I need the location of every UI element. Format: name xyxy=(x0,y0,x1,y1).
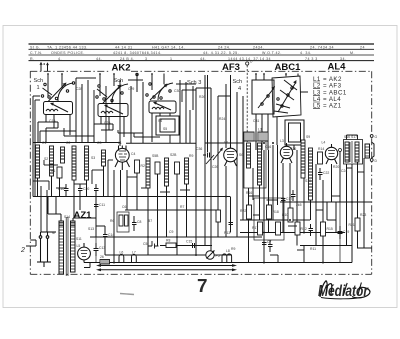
resistor R15 xyxy=(321,222,333,236)
coupling box S6B xyxy=(244,132,254,141)
svg-text:C8: C8 xyxy=(137,220,141,224)
svg-text:C3: C3 xyxy=(97,141,101,145)
loudspeaker xyxy=(365,142,374,158)
capacitor C18 xyxy=(291,190,296,201)
svg-text:2434.: 2434. xyxy=(253,45,264,49)
svg-text:3: 3 xyxy=(145,57,147,61)
potentiometer P5 xyxy=(206,250,220,259)
svg-text:S9: S9 xyxy=(306,135,310,139)
wire bottom-left feeds xyxy=(30,197,105,268)
resistor R3 xyxy=(155,162,160,174)
svg-text:24 24.: 24 24. xyxy=(218,45,231,49)
IF transformer S6/S7 xyxy=(244,137,266,189)
svg-text:R13: R13 xyxy=(224,231,230,235)
svg-text:P5: P5 xyxy=(216,254,220,258)
svg-text:26: 26 xyxy=(100,255,104,259)
svg-text:C22: C22 xyxy=(323,171,329,175)
svg-text:C1: C1 xyxy=(42,141,46,145)
svg-text:C2A: C2A xyxy=(104,121,111,125)
svg-text:AL4: AL4 xyxy=(328,62,347,73)
coil S5B xyxy=(146,158,150,188)
svg-text:R16: R16 xyxy=(246,191,252,195)
capacitor C23 xyxy=(268,240,273,252)
resistor R2 xyxy=(135,160,145,173)
coupling box L3 filter xyxy=(258,128,268,142)
svg-text:C13: C13 xyxy=(99,246,105,250)
svg-text:S16 S17: S16 S17 xyxy=(344,135,357,139)
wire rail h-line xyxy=(125,209,218,211)
resistor R10 xyxy=(282,208,293,222)
wire verticals mid zone xyxy=(33,143,231,263)
svg-text:S2: S2 xyxy=(44,157,48,161)
svg-text:C5: C5 xyxy=(143,242,147,246)
svg-text:C9: C9 xyxy=(169,230,173,234)
svg-text:R14: R14 xyxy=(318,147,324,151)
svg-text:Sch: Sch xyxy=(233,79,243,85)
heater supply line 2 with arrows xyxy=(96,268,237,271)
wire rail k-line xyxy=(90,236,262,238)
svg-text:R8: R8 xyxy=(166,239,170,243)
capacitor C25 xyxy=(309,224,314,236)
svg-text:R2: R2 xyxy=(141,164,145,168)
svg-text:AZ1: AZ1 xyxy=(74,210,93,221)
wire rail p-line xyxy=(105,254,232,256)
svg-text:L7: L7 xyxy=(132,251,136,255)
capacitor C15 xyxy=(186,240,198,249)
resistor R19 xyxy=(276,222,281,235)
tube L1 octode AK2 xyxy=(115,141,130,170)
svg-text:24 B 4.: 24 B 4. xyxy=(120,57,135,61)
svg-text:34.: 34. xyxy=(340,57,346,61)
svg-text:R6: R6 xyxy=(110,219,114,223)
label Sch 1 xyxy=(34,78,44,91)
capacitor C19 xyxy=(338,202,350,263)
svg-text:L4: L4 xyxy=(322,141,326,145)
svg-text:R.: R. xyxy=(30,57,35,61)
svg-text:L3: L3 xyxy=(258,128,262,132)
svg-text:S11: S11 xyxy=(76,237,82,241)
tube L5 rectifier AZ1 xyxy=(77,243,91,263)
wire rail s-line xyxy=(160,246,372,249)
misc part labels xyxy=(42,141,366,235)
capacitor C27 xyxy=(229,218,234,229)
capacitor C20 xyxy=(78,184,89,195)
tube legend list xyxy=(313,76,347,110)
resistor R14 xyxy=(318,147,325,164)
svg-text:4. 34.: 4. 34. xyxy=(300,51,312,55)
band switch cluster Sch3 xyxy=(146,73,179,142)
tube L4 output pentode AL4 xyxy=(322,141,342,165)
wire left double run xyxy=(35,100,40,197)
coil S4 xyxy=(72,146,76,180)
antenna terminal D xyxy=(246,60,253,143)
wire stair jogs between clusters xyxy=(40,86,196,143)
coil S2 xyxy=(44,146,54,176)
capacitor C14 electrolytic xyxy=(103,230,114,241)
svg-text:C26: C26 xyxy=(212,165,218,169)
label Sch 4 xyxy=(233,79,243,92)
resistor box R5 group xyxy=(110,212,129,232)
svg-text:B7: B7 xyxy=(148,219,152,223)
svg-text:44. 4.31.22. 5.25.: 44. 4.31.22. 5.25. xyxy=(203,51,239,55)
label Sch 2 xyxy=(114,78,124,91)
svg-text:St G.: St G. xyxy=(30,45,40,49)
choke L8 xyxy=(222,249,232,263)
wire jogs right-mid xyxy=(249,168,365,263)
svg-text:AF3: AF3 xyxy=(222,62,240,73)
svg-text:74 3 3: 74 3 3 xyxy=(305,57,318,61)
svg-text:L6: L6 xyxy=(120,251,124,255)
svg-text:R9: R9 xyxy=(189,154,193,158)
svg-text:44.: 44. xyxy=(200,57,206,61)
svg-text:44 14 31: 44 14 31 xyxy=(115,45,133,49)
band switch cluster Sch2 xyxy=(94,73,138,143)
wire verticals upper zone xyxy=(76,75,243,255)
heater supply line 1 with arrows xyxy=(96,264,237,267)
table row 1 text xyxy=(30,45,365,49)
svg-text:R23: R23 xyxy=(360,213,366,217)
svg-text:R1: R1 xyxy=(51,169,55,173)
choke L6 xyxy=(119,251,124,263)
chassis frame dash-dot border xyxy=(30,71,371,274)
svg-text:44.: 44. xyxy=(96,57,102,61)
svg-text:L1: L1 xyxy=(118,141,122,145)
resistor R13 xyxy=(216,210,221,222)
resistor R21 xyxy=(349,218,361,231)
chassis bus xyxy=(84,262,352,264)
label Sch 3 xyxy=(187,80,201,86)
svg-text:L5: L5 xyxy=(77,244,81,248)
svg-text:Sch: Sch xyxy=(114,78,124,84)
svg-text:C28: C28 xyxy=(76,87,82,91)
wire stubs above output transformer xyxy=(347,135,358,140)
output transformer S16/S17 xyxy=(344,135,363,164)
svg-text:R24: R24 xyxy=(219,117,225,121)
wire horizontals upper zone xyxy=(33,78,308,143)
svg-text:L2: L2 xyxy=(224,141,228,145)
svg-text:R15: R15 xyxy=(327,227,333,231)
svg-text:4241 8. 34607646,3414.: 4241 8. 34607646,3414. xyxy=(113,51,162,55)
svg-text:C2: C2 xyxy=(66,141,70,145)
svg-text:C30: C30 xyxy=(174,89,180,93)
resistor R4 xyxy=(175,162,180,174)
capacitor C5 xyxy=(143,241,159,249)
svg-text:S2B: S2B xyxy=(170,153,177,157)
svg-text:C19: C19 xyxy=(343,230,349,234)
capacitor C21 xyxy=(94,184,99,195)
coil S9 xyxy=(301,140,305,178)
svg-text:S6: S6 xyxy=(239,153,243,157)
capacitor C13 electrolytic xyxy=(94,237,106,263)
oscillator switch cluster Sch4 / tuning unit xyxy=(252,73,304,150)
svg-text:C36: C36 xyxy=(196,147,202,151)
coil S6 xyxy=(102,150,106,166)
svg-text:R26: R26 xyxy=(199,95,205,99)
coil S8B xyxy=(185,158,189,184)
svg-text:S3: S3 xyxy=(91,156,95,160)
svg-text:Sch 3: Sch 3 xyxy=(187,80,201,86)
table row 2 text xyxy=(30,51,355,55)
wire jogs mid-left xyxy=(33,160,190,197)
wire transformer primary top xyxy=(48,214,96,226)
resistor R8 horizontal xyxy=(166,239,176,248)
tube L3 duodiode-triode ABC1 xyxy=(280,139,293,163)
svg-text:AK2: AK2 xyxy=(112,62,131,73)
svg-text:R22: R22 xyxy=(240,209,246,213)
svg-text:S5: S5 xyxy=(163,127,167,131)
antenna arrow A1 xyxy=(40,62,43,72)
svg-text:C1A: C1A xyxy=(49,119,56,123)
svg-text:4.: 4. xyxy=(58,57,62,61)
wire rail g-line xyxy=(33,196,230,198)
svg-text:ABC1: ABC1 xyxy=(275,62,302,73)
svg-text:C6: C6 xyxy=(122,205,126,209)
svg-text:R17: R17 xyxy=(252,226,258,230)
terminal D on frame xyxy=(370,159,377,163)
capacitor C36 xyxy=(196,147,210,158)
coil S1 xyxy=(36,145,40,178)
svg-text:TA. 1 23456 44 133.: TA. 1 23456 44 133. xyxy=(47,45,88,49)
box detector network xyxy=(254,198,284,240)
svg-text:C29: C29 xyxy=(128,87,134,91)
svg-text:C15: C15 xyxy=(186,240,192,244)
title table frame xyxy=(29,44,375,61)
svg-text:S10: S10 xyxy=(305,179,311,183)
svg-text:2: 2 xyxy=(20,247,25,254)
svg-text:S13: S13 xyxy=(88,227,94,231)
resistor R17 xyxy=(252,222,263,235)
capacitor C10 xyxy=(58,184,69,195)
svg-text:24: 24 xyxy=(360,45,365,49)
svg-text:1: 1 xyxy=(37,85,40,91)
coil S3 xyxy=(61,147,65,163)
svg-text:R20: R20 xyxy=(333,165,339,169)
wire verticals right zone xyxy=(249,145,365,263)
coil S15 on chassis bus xyxy=(100,255,110,264)
coil S10 xyxy=(309,148,313,200)
mains cord entry 2 xyxy=(20,246,36,254)
table row 3 text xyxy=(30,57,346,61)
svg-text:C4: C4 xyxy=(131,152,135,156)
wire rail avc-line xyxy=(240,232,345,234)
capacitor C17 xyxy=(281,194,292,205)
trimmer arrows at L2 grid xyxy=(206,148,223,165)
svg-text:2k5: 2k5 xyxy=(296,203,302,207)
svg-text:C16: C16 xyxy=(290,147,296,151)
resistor R18 xyxy=(267,205,279,219)
smudge mark xyxy=(120,294,134,295)
mains plug prongs xyxy=(37,232,56,267)
svg-text:C.T.N.: C.T.N. xyxy=(30,51,43,55)
power transformer S11/S12 xyxy=(52,217,82,276)
svg-text:C17: C17 xyxy=(286,197,292,201)
svg-text:7: 7 xyxy=(197,276,208,296)
capacitor C7 xyxy=(262,238,271,250)
svg-text:1: 1 xyxy=(170,57,172,61)
svg-text:L8: L8 xyxy=(226,249,230,253)
terminal G on frame xyxy=(370,135,377,139)
choke L7 xyxy=(132,251,137,263)
svg-text:R18: R18 xyxy=(273,210,279,214)
coil S2B xyxy=(165,158,169,186)
capacitor C8 xyxy=(132,216,141,231)
resistor R1 xyxy=(51,167,62,178)
band switch cluster Sch1 xyxy=(38,73,75,142)
capacitor C22 xyxy=(318,168,329,180)
svg-text:H41 G47 14. 14.: H41 G47 14. 14. xyxy=(152,45,185,49)
svg-text:R10: R10 xyxy=(282,213,288,217)
svg-text:S4: S4 xyxy=(158,119,162,123)
extra part labels xyxy=(49,87,347,251)
junction dots xyxy=(113,142,353,264)
svg-text:C14: C14 xyxy=(108,233,114,237)
svg-text:G: G xyxy=(375,135,378,139)
antenna arrow A2 xyxy=(43,62,48,71)
svg-text:M.: M. xyxy=(350,51,355,55)
resistor R22 xyxy=(240,205,252,219)
svg-text:24. 7434.34: 24. 7434.34 xyxy=(310,45,334,49)
tube L2 pentode AF3 xyxy=(224,141,238,167)
svg-text:Sch: Sch xyxy=(34,78,44,84)
svg-text:C16: C16 xyxy=(265,145,271,149)
svg-text:C31: C31 xyxy=(253,119,259,123)
svg-text:R12: R12 xyxy=(301,227,307,231)
Mediator script logo xyxy=(318,281,370,300)
svg-text:R21: R21 xyxy=(349,223,355,227)
resistor R12 xyxy=(295,222,307,235)
svg-text:R9: R9 xyxy=(231,247,235,251)
svg-text:ONDES POLICE.: ONDES POLICE. xyxy=(51,51,85,55)
svg-text:4: 4 xyxy=(238,86,241,92)
svg-text:S5B: S5B xyxy=(152,154,159,158)
svg-text:R7: R7 xyxy=(180,205,184,209)
svg-text:C7: C7 xyxy=(267,240,271,244)
svg-text:L3: L3 xyxy=(280,139,284,143)
svg-text:C24: C24 xyxy=(341,169,347,173)
svg-text:W.O.T.42.: W.O.T.42. xyxy=(262,51,282,55)
svg-text:C11: C11 xyxy=(99,203,105,207)
coil S5 xyxy=(85,146,89,180)
wire rail anode-line xyxy=(240,202,372,220)
svg-text:S14: S14 xyxy=(64,215,70,219)
capacitor C11 xyxy=(94,200,105,211)
svg-text:R11: R11 xyxy=(310,247,316,251)
